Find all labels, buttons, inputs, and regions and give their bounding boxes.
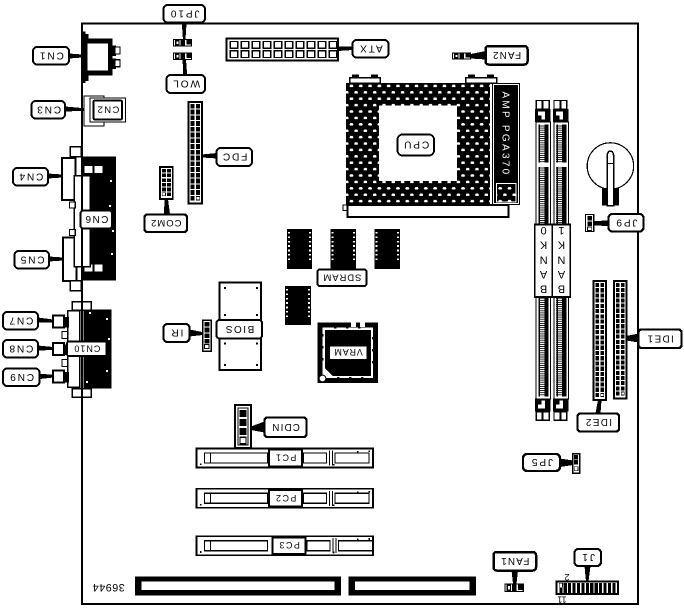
svg-text:CN3: CN3 — [35, 103, 61, 114]
leader CN7 — [38, 318, 53, 323]
connector ATX — [227, 39, 339, 61]
leader IR — [190, 330, 203, 337]
connector CN4 port — [62, 158, 76, 200]
jumper WOL — [173, 53, 192, 61]
connector CDIN — [235, 405, 251, 448]
svg-text:JP5: JP5 — [530, 456, 553, 467]
svg-text:CN6: CN6 — [84, 213, 108, 224]
connector block CN6 ports — [83, 157, 116, 281]
leader WOL — [183, 60, 188, 75]
slot BANK1 — [552, 101, 570, 421]
chip SDRAM U4 — [285, 286, 311, 328]
label FAN1 — [494, 552, 537, 571]
label FAN2 — [486, 46, 528, 65]
slot PC3 — [197, 536, 374, 555]
label CN1 — [33, 47, 69, 65]
connector IDE2 — [594, 281, 607, 400]
svg-text:K: K — [557, 239, 565, 251]
jumper FAN2 — [452, 53, 471, 60]
svg-text:IR: IR — [170, 327, 184, 338]
svg-text:N: N — [540, 253, 548, 265]
jack CN9 — [53, 371, 69, 383]
label FDC — [217, 148, 253, 166]
label SDRAM — [318, 270, 367, 287]
chip SDRAM U2 — [331, 229, 357, 273]
leader CN4 — [48, 174, 62, 179]
svg-text:N: N — [557, 253, 565, 265]
label CPU — [398, 135, 435, 156]
svg-text:CN4: CN4 — [18, 170, 44, 181]
connector FDC — [189, 102, 203, 204]
port stack body — [70, 147, 91, 291]
label CN6 — [81, 211, 113, 229]
svg-text:CN5: CN5 — [19, 253, 45, 264]
svg-text:CDIN: CDIN — [271, 421, 300, 432]
connector CN2 — [84, 96, 126, 126]
leader CN9 — [40, 374, 54, 379]
leader CDIN — [251, 422, 265, 433]
svg-text:BIOS: BIOS — [224, 323, 254, 334]
svg-text:CN10: CN10 — [73, 343, 100, 353]
svg-text:SDRAM: SDRAM — [323, 271, 362, 282]
leader ATX — [338, 47, 353, 52]
svg-text:CPU: CPU — [402, 139, 429, 150]
label CN4 — [13, 168, 48, 186]
leader CN1 — [69, 54, 82, 59]
label CDIN — [265, 418, 307, 438]
leader IDE1 — [627, 334, 639, 343]
svg-text:36944: 36944 — [92, 581, 125, 593]
jumper JP10 — [173, 39, 192, 47]
jumper FAN1 — [505, 584, 525, 593]
leader FDC — [202, 153, 217, 159]
svg-text:CN8: CN8 — [8, 342, 34, 353]
leader IDE2 — [596, 400, 602, 414]
svg-text:VRAM: VRAM — [334, 347, 363, 357]
connector COM2 — [160, 167, 173, 199]
socket marking AMP PGA370 — [492, 83, 520, 205]
svg-text:IDE1: IDE1 — [646, 332, 673, 343]
svg-text:PC3: PC3 — [278, 540, 300, 550]
connector block CN10 — [62, 302, 111, 398]
svg-text:JP9: JP9 — [615, 216, 638, 227]
leader J1 — [585, 566, 591, 582]
chip VRAM — [318, 323, 379, 384]
svg-text:K: K — [539, 239, 547, 251]
header JP5 — [573, 454, 580, 474]
chip BIOS — [220, 283, 262, 371]
board edge over CN10 stack — [81, 298, 83, 400]
CPU socket tab right — [466, 75, 497, 84]
connector CN1 — [82, 32, 120, 84]
CPU socket pin field — [346, 83, 490, 205]
label COM2 — [145, 215, 188, 233]
slot PC2 — [197, 489, 374, 508]
header JP9 — [586, 215, 594, 232]
label CN10 — [67, 341, 107, 356]
motherboard outline — [82, 24, 638, 605]
connector J1 — [557, 582, 619, 595]
CPU socket lever bar — [343, 205, 509, 217]
svg-text:CN7: CN7 — [8, 314, 34, 325]
svg-text:2: 2 — [564, 572, 569, 582]
slot BANK0 — [535, 101, 553, 421]
chip SDRAM U3 — [375, 229, 401, 272]
svg-text:A: A — [557, 268, 565, 280]
svg-text:B: B — [540, 283, 547, 295]
leader CN3 — [65, 107, 84, 112]
label CN3 — [32, 101, 66, 119]
jack CN7 — [53, 316, 69, 328]
svg-text:CN1: CN1 — [38, 49, 64, 60]
svg-text:A: A — [539, 268, 547, 280]
chip SDRAM U1 — [287, 229, 312, 272]
label JP10 — [164, 5, 206, 23]
connector IDE1 — [614, 281, 627, 399]
svg-text:PC2: PC2 — [275, 493, 297, 503]
label CN5 — [15, 251, 50, 269]
label IDE2 — [578, 414, 620, 432]
svg-text:JP10: JP10 — [169, 7, 199, 18]
label IDE1 — [639, 330, 682, 349]
label J1 — [575, 549, 602, 566]
svg-text:AMP PGA370: AMP PGA370 — [499, 91, 510, 176]
leader JP10 — [182, 23, 187, 40]
svg-text:ATX: ATX — [358, 42, 382, 53]
label WOL — [167, 75, 206, 93]
jack CN8 — [53, 343, 69, 355]
leader COM2 — [164, 199, 170, 215]
svg-text:CN2: CN2 — [96, 104, 119, 115]
CPU socket tab left — [350, 75, 381, 84]
leader CN5 — [49, 257, 63, 262]
label CN9 — [3, 369, 40, 387]
svg-text:FDC: FDC — [221, 151, 247, 162]
svg-text:FAN1: FAN1 — [500, 555, 529, 566]
slot bar left — [135, 577, 341, 596]
svg-text:11: 11 — [557, 595, 566, 605]
leader FAN2 — [471, 51, 486, 60]
svg-text:1: 1 — [558, 224, 564, 236]
svg-text:PC1: PC1 — [275, 453, 297, 463]
svg-text:0: 0 — [541, 224, 547, 236]
slot bar right — [349, 577, 477, 596]
slot PC1 — [197, 449, 374, 468]
CPU socket center — [379, 106, 457, 182]
leader JP9 — [594, 221, 609, 227]
svg-text:J1: J1 — [581, 551, 595, 562]
label JP5 — [523, 454, 560, 471]
header IR — [203, 320, 212, 351]
label CN7 — [3, 312, 38, 330]
label BIOS — [217, 320, 263, 339]
svg-text:IDE2: IDE2 — [585, 416, 612, 427]
svg-text:CN9: CN9 — [8, 371, 34, 382]
label CN8 — [3, 340, 38, 358]
svg-text:WOL: WOL — [171, 78, 200, 89]
svg-text:B: B — [558, 283, 565, 295]
label ATX — [353, 40, 389, 58]
board edge over port stack — [81, 146, 83, 311]
battery — [587, 143, 633, 206]
label JP9 — [609, 214, 644, 232]
svg-text:FAN2: FAN2 — [492, 49, 521, 60]
label IR — [164, 324, 190, 342]
leader FAN1 — [512, 571, 519, 584]
connector CN5 port — [63, 238, 77, 282]
svg-text:COM2: COM2 — [150, 217, 181, 228]
leader CN8 — [38, 346, 53, 351]
leader JP5 — [560, 459, 573, 468]
